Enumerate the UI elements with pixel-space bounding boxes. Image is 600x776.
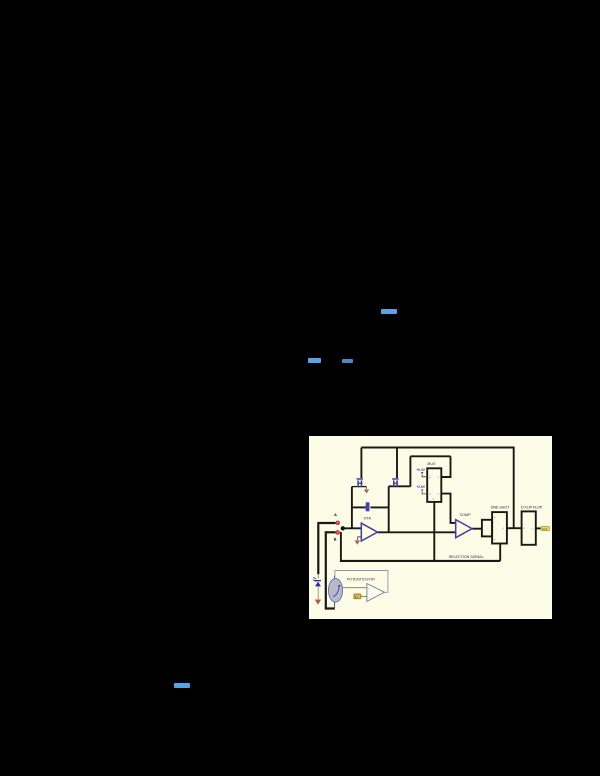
wire cap right lead	[371, 506, 389, 508]
wire wire2 left vertical	[409, 456, 411, 486]
wire DFF output	[536, 527, 541, 529]
wire top feedback	[361, 447, 513, 449]
wire one-shot bottom vertical	[499, 544, 501, 561]
wire one-shot to DFF	[507, 527, 522, 529]
capacitor C1	[364, 502, 370, 511]
cell arrow	[333, 586, 339, 596]
output tag	[541, 526, 550, 530]
electrochemical cell (ellipse)	[328, 579, 342, 603]
wire branch B horizontal	[326, 531, 336, 533]
one-shot U3	[492, 512, 507, 543]
D flip flop U4	[522, 511, 536, 544]
svg-text:OUT: OUT	[542, 527, 548, 531]
potentiostat box	[335, 571, 388, 593]
MUX box	[427, 468, 441, 502]
node junction dot	[341, 526, 345, 530]
svg-text:ONE SHOT: ONE SHOT	[491, 505, 511, 509]
wire cap left lead	[352, 506, 365, 508]
wire cap-left vertical	[351, 487, 353, 529]
wire feedback right vertical	[513, 447, 515, 529]
svg-text:O: O	[438, 477, 440, 479]
wire selection bottom	[340, 560, 500, 562]
wire R1 top vertical	[360, 448, 362, 479]
one-shot input sub-box	[482, 520, 492, 537]
svg-text:MUX: MUX	[427, 462, 436, 466]
wire OTA input	[343, 527, 362, 529]
resistor R1 (digital)	[357, 478, 363, 487]
link ref 4	[174, 683, 190, 688]
svg-text:OTA: OTA	[364, 516, 372, 520]
wire second horizontal	[410, 455, 450, 457]
wire R1 bottom horizontal	[352, 486, 367, 488]
wire cell to op-amp	[343, 587, 367, 589]
ground under OTA	[358, 537, 362, 540]
link ref 3	[342, 359, 353, 363]
ground under photodiode	[315, 600, 321, 605]
switch contact B	[336, 530, 340, 534]
svg-text:Q: Q	[532, 528, 534, 530]
schematic figure	[309, 436, 552, 619]
wire branch A vertical	[317, 522, 319, 574]
wire MUX pin2 to COMP	[442, 494, 456, 523]
resistor R2 (digital)	[392, 478, 398, 487]
svg-text:SELECTION SIGNAL: SELECTION SIGNAL	[449, 555, 484, 559]
wire R2 top vertical	[396, 448, 398, 479]
power mark 2	[421, 490, 424, 492]
svg-text:+2.8V: +2.8V	[416, 485, 426, 489]
wire COMP output	[472, 528, 482, 530]
MUX pin labels	[429, 477, 440, 501]
wire branch A horizontal	[318, 522, 335, 524]
wire MUX select vertical	[433, 503, 435, 561]
input tag (yellow)	[354, 594, 361, 599]
svg-text:O: O	[438, 494, 440, 496]
link ref 1	[381, 309, 397, 314]
wire pin2 stub	[422, 492, 427, 494]
wire R2 bottom horizontal	[389, 485, 411, 487]
wire pin1 stub	[422, 474, 427, 476]
svg-text:B: B	[334, 538, 337, 542]
wire OTA output	[377, 531, 455, 533]
wire tag to op-amp	[361, 595, 367, 597]
wire cap-right vertical	[388, 486, 390, 532]
svg-text:IN: IN	[355, 595, 358, 599]
svg-text:A: A	[334, 512, 337, 517]
op-amp OTA	[361, 523, 377, 541]
power mark 1	[421, 472, 424, 474]
wire to MUX pin1	[442, 456, 451, 477]
ground under R1	[365, 487, 367, 490]
svg-text:POTENTIOSTAT: POTENTIOSTAT	[347, 577, 376, 581]
wire selection vertical from node	[340, 532, 342, 561]
switch contact A	[336, 521, 340, 525]
figure background	[309, 436, 552, 619]
op-amp U2 (potentiostat)	[367, 584, 385, 602]
link ref 2	[308, 358, 321, 363]
svg-text:COMP: COMP	[460, 513, 472, 517]
comparator COMP	[456, 520, 472, 538]
photodiode D1	[317, 574, 319, 578]
wire branch B vertical	[325, 531, 335, 608]
svg-text:+0.3V: +0.3V	[416, 468, 426, 472]
svg-text:Q: Q	[503, 528, 505, 530]
svg-text:D FLIP FLOP: D FLIP FLOP	[521, 505, 543, 509]
